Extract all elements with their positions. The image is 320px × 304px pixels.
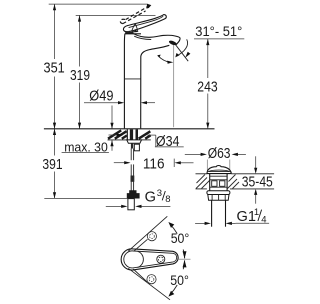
O63 extension lines: [206, 160, 208, 171]
dim 391 vertical line: [54, 129, 56, 156]
dim 35-45: [255, 156, 257, 172]
counter hatching right of shank: [139, 131, 151, 138]
pop-up dome: [207, 166, 231, 174]
dim 351 extension top line: [49, 3, 148, 5]
counter section bottom line: [108, 139, 127, 141]
rotated position lower lines: [128, 268, 170, 300]
shank through counter: [127, 129, 137, 140]
rotated hole upper: [147, 232, 156, 241]
drain counter top line: [196, 173, 207, 175]
dim max.30 arrows: [111, 106, 113, 129]
drain hatching right: [228, 175, 240, 189]
dim G1 1/4: [195, 222, 206, 224]
hose end reference line: [44, 197, 127, 199]
svg-text:50°: 50°: [170, 273, 189, 289]
drain hatching left: [196, 175, 210, 189]
lock nut: [208, 195, 229, 201]
svg-text:Ø34: Ø34: [156, 134, 180, 150]
hose connector block: [134, 144, 139, 151]
supply hose lower: [130, 164, 132, 190]
svg-text:31°- 51°: 31°- 51°: [195, 23, 242, 39]
hose end fitting G3/8: [127, 190, 140, 198]
svg-text:351: 351: [44, 61, 65, 77]
svg-text:35-45: 35-45: [242, 174, 273, 190]
dim O63: [185, 153, 202, 155]
tail pipe: [211, 200, 213, 226]
dim 243: [194, 38, 244, 40]
fitting tail: [128, 199, 134, 210]
svg-text:Ø49: Ø49: [89, 89, 113, 105]
svg-text:391: 391: [42, 157, 62, 173]
dim 116: [114, 162, 126, 164]
drain counter bottom line: [196, 188, 207, 190]
G3/8 arrows: [106, 205, 122, 207]
dim 319 extension top line: [76, 14, 156, 16]
hose coupling: [131, 176, 135, 182]
dim 351 vertical line: [54, 4, 56, 59]
aerator: [168, 40, 177, 46]
dim O49: [84, 102, 120, 104]
body joint line: [124, 78, 140, 80]
countertop main line: [44, 128, 215, 130]
mounting nut: [127, 140, 142, 143]
stud below nut: [131, 143, 133, 148]
angle annotation arc left: [158, 56, 171, 63]
svg-text:3: 3: [157, 188, 162, 199]
svg-text:1: 1: [254, 207, 259, 218]
body left edge: [123, 34, 126, 129]
lever nose: [123, 26, 128, 32]
svg-text:max. 30: max. 30: [64, 139, 108, 154]
body cap: [125, 32, 133, 34]
svg-text:50°: 50°: [171, 231, 190, 247]
lever boss teardrop: [132, 24, 138, 32]
faucet lever dashed raised position: [120, 6, 148, 24]
supply hose upper: [130, 149, 132, 161]
svg-text:243: 243: [197, 79, 217, 95]
spout tip extension line: [173, 43, 175, 128]
svg-text:319: 319: [70, 68, 90, 84]
svg-text:8: 8: [165, 194, 170, 205]
dim O34 leader: [109, 134, 118, 136]
spout front face: [176, 38, 180, 45]
rotated hole lower: [147, 275, 156, 284]
svg-text:Ø63: Ø63: [208, 146, 231, 162]
svg-text:G: G: [145, 190, 156, 206]
lever inner top line: [129, 16, 164, 27]
handle hole: [157, 255, 165, 263]
handle pad seam arc: [138, 251, 144, 267]
raised lever tip: [147, 4, 152, 9]
faucet lever neutral: [127, 15, 167, 32]
stream line: [176, 45, 189, 61]
spout underside curve: [141, 45, 170, 128]
svg-text:4: 4: [261, 214, 266, 225]
overflow windows: [212, 181, 217, 187]
handle outer outline: [121, 249, 178, 270]
upper 50 arc: [170, 224, 178, 234]
lower 50 arc: [170, 285, 178, 295]
centerline right: [177, 258, 191, 260]
dim 319 vertical line: [79, 15, 81, 66]
handle inner outline: [124, 251, 177, 268]
seal washer: [207, 191, 230, 195]
angle leader curve: [176, 39, 187, 56]
rotated position upper lines: [128, 216, 167, 251]
spout neck shadow line: [134, 36, 151, 39]
drain body through counter: [209, 174, 211, 191]
body neck to spout top edge: [134, 34, 181, 38]
counter hatching left of shank: [108, 130, 127, 138]
svg-text:116: 116: [143, 156, 165, 172]
